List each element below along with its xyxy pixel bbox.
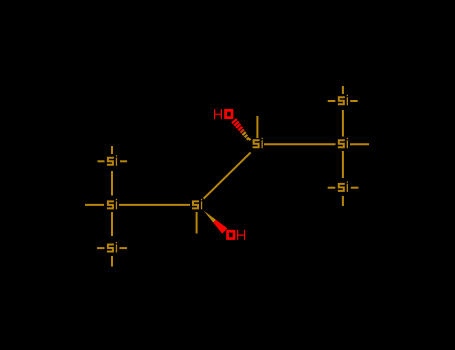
wire: left-top SiMe3 right methyl dash bbox=[120, 160, 127, 162]
wire: left-bottom SiMe3 left methyl dash bbox=[97, 247, 105, 249]
wire: Si3 up methyl bbox=[256, 116, 258, 138]
wire: Si4 to bottom SiMe3 bbox=[342, 151, 344, 178]
wire: left-top SiMe3 up methyl bbox=[111, 146, 113, 154]
wire: Si1 left methyl bbox=[85, 204, 104, 206]
wire: left-bottom SiMe3 right methyl dash bbox=[120, 247, 128, 249]
wire: Si3-Si4 bond bbox=[264, 143, 336, 145]
wire: right-top SiMe3 right methyl dash bbox=[350, 100, 358, 102]
wire: right-bottom SiMe3 down methyl bbox=[342, 196, 344, 206]
hydroxyl OH on Si2 bbox=[226, 230, 235, 240]
wire: Si4 right methyl bbox=[350, 143, 369, 145]
atom Si left-top trimethylsilyl bbox=[107, 155, 117, 166]
hydroxyl HO on Si3 bbox=[214, 109, 222, 119]
atom Si2 (stereocentre with OH) bbox=[192, 199, 202, 210]
atom Si right-bottom trimethylsilyl bbox=[338, 181, 348, 192]
wedge bond Si2-OH outer half (O colour) bbox=[213, 220, 227, 234]
wire: left-bottom SiMe3 down methyl bbox=[111, 256, 113, 267]
wire: Si4 to top SiMe3 bbox=[342, 110, 344, 137]
hashed wedge bond Si3-OH bbox=[232, 119, 251, 140]
atom Si right-top trimethylsilyl bbox=[338, 95, 348, 106]
wire: Si2 down methyl bbox=[196, 212, 198, 234]
atom Si4 (central right) bbox=[338, 138, 348, 149]
atom Si1 (central left) bbox=[107, 199, 117, 210]
atom Si3 (stereocentre with HO) bbox=[253, 138, 263, 149]
atom Si left-bottom trimethylsilyl bbox=[107, 242, 117, 253]
wire: Si1 to bottom SiMe3 bbox=[111, 212, 113, 236]
wire: Si1-Si2 bond bbox=[119, 204, 190, 206]
wire: left-top SiMe3 left methyl dash bbox=[98, 160, 105, 162]
wire: right-top SiMe3 left methyl dash bbox=[328, 100, 336, 102]
wire: right-bottom SiMe3 right methyl dash bbox=[351, 187, 359, 189]
wire: Si1 to top SiMe3 bbox=[111, 171, 113, 196]
wire: Si2-Si3 bond bbox=[204, 152, 251, 198]
wedge bond Si2-OH inner half (Si colour) bbox=[204, 211, 216, 223]
wire: right-bottom SiMe3 left methyl dash bbox=[328, 187, 336, 189]
wire: right-top SiMe3 up methyl bbox=[342, 86, 344, 94]
